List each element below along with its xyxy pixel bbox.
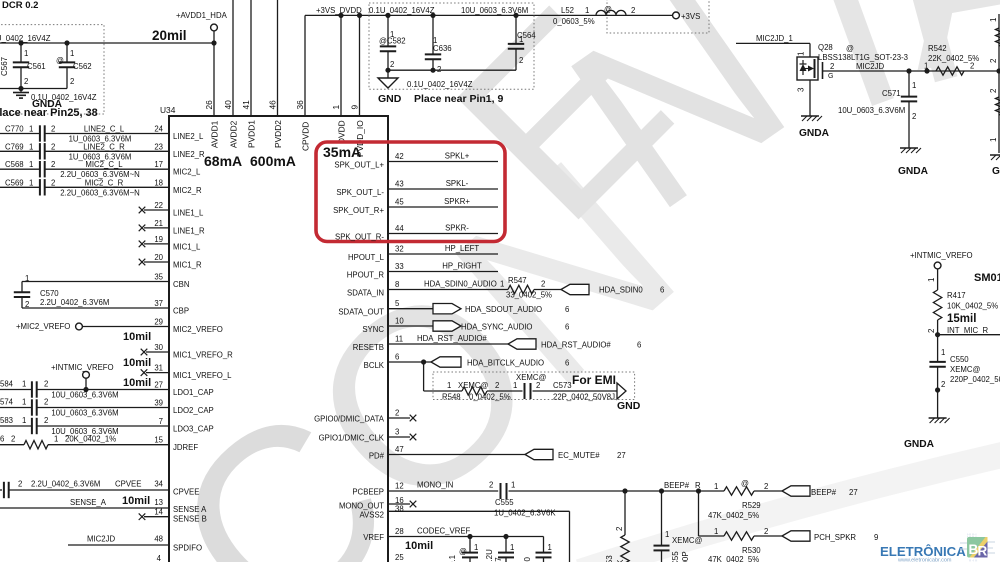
pin name DVDD xyxy=(337,120,347,144)
svg-text:LDO1_CAP: LDO1_CAP xyxy=(173,388,214,397)
node junctions CODEC_VREF xyxy=(467,534,508,539)
svg-text:24: 24 xyxy=(154,125,163,134)
svg-text:PD#: PD# xyxy=(369,452,385,461)
svg-text:27: 27 xyxy=(154,381,163,390)
svg-text:12: 12 xyxy=(395,482,404,491)
svg-text:2: 2 xyxy=(764,482,768,491)
wire +AVDD1_HDA to pin 26 xyxy=(211,31,216,116)
flag PCH_SPKR xyxy=(782,531,878,542)
svg-text:2: 2 xyxy=(989,88,998,93)
label BEEP#_R xyxy=(664,481,701,490)
capacitor C569 and pin 18 MIC2_R xyxy=(0,178,202,197)
value label 0.1U_0402_16V4Z xyxy=(31,93,97,102)
svg-text:1: 1 xyxy=(585,6,589,15)
power terminal +MIC2_VREFO and pin 29 MIC2_VREFO xyxy=(16,318,223,335)
svg-text:6: 6 xyxy=(395,353,399,362)
pin 13 SENSE A xyxy=(0,498,207,514)
svg-text:15: 15 xyxy=(154,436,163,445)
pin 12 PCBEEP wire MONO_IN xyxy=(352,481,498,497)
svg-text:35: 35 xyxy=(154,273,163,282)
svg-text:43: 43 xyxy=(395,180,404,189)
svg-text:R547: R547 xyxy=(508,276,527,285)
label 35mA xyxy=(323,144,361,160)
svg-text:R: R xyxy=(978,544,988,559)
label 68mA 600mA xyxy=(204,153,296,169)
svg-text:MIC2_C_L: MIC2_C_L xyxy=(85,160,123,169)
svg-text:CPVDD: CPVDD xyxy=(301,122,311,151)
svg-text:GNDA: GNDA xyxy=(898,166,929,177)
svg-text:@: @ xyxy=(56,56,64,65)
svg-text:220P_0402_50: 220P_0402_50 xyxy=(950,375,1000,384)
capacitor C562 xyxy=(56,43,92,89)
svg-text:CODEC_VREF: CODEC_VREF xyxy=(417,527,471,536)
svg-text:47K_0402_5%: 47K_0402_5% xyxy=(708,555,759,562)
svg-text:1: 1 xyxy=(989,17,998,22)
capacitor C583 and pin 7 LDO3_CAP xyxy=(0,416,214,436)
capacitor CPVEE and pin 34 CPVEE xyxy=(0,480,199,499)
svg-text:1: 1 xyxy=(29,178,33,187)
svg-text:9: 9 xyxy=(350,105,360,110)
svg-text:+MIC2_VREFO: +MIC2_VREFO xyxy=(16,322,70,331)
svg-text:PVDD2: PVDD2 xyxy=(273,120,283,148)
pin 42 SPK_OUT_L+ xyxy=(334,152,498,170)
svg-text:2: 2 xyxy=(395,409,399,418)
svg-text:2: 2 xyxy=(764,527,768,536)
dashed box For EMI xyxy=(433,372,635,400)
svg-text:2: 2 xyxy=(615,526,624,531)
svg-text:2: 2 xyxy=(44,380,48,389)
svg-text:46: 46 xyxy=(268,100,278,110)
pin 35 CBN xyxy=(22,273,189,290)
svg-text:AVDD1: AVDD1 xyxy=(210,120,220,148)
svg-text:GNDA: GNDA xyxy=(992,166,1000,177)
svg-text:6: 6 xyxy=(565,305,569,314)
wire +3VS_DVDD rail xyxy=(305,15,673,116)
arrow flag GND xyxy=(617,383,626,399)
svg-text:EC_MUTE#: EC_MUTE# xyxy=(558,451,600,460)
svg-text:2: 2 xyxy=(536,381,540,390)
svg-text:HPOUT_R: HPOUT_R xyxy=(347,271,385,280)
capacitor C769 and pin 23 LINE2_R xyxy=(0,142,205,161)
pin 37 CBP xyxy=(22,299,189,316)
svg-text:BEEP#: BEEP# xyxy=(811,488,837,497)
svg-text:2: 2 xyxy=(495,381,499,390)
flag BEEP# xyxy=(782,486,858,497)
ground GNDA under C550 xyxy=(929,418,950,423)
svg-text:11: 11 xyxy=(395,335,403,344)
svg-text:Place near Pin25, 38: Place near Pin25, 38 xyxy=(0,107,98,119)
dashed box C561/C562 xyxy=(0,25,104,114)
svg-text:LINE1_L: LINE1_L xyxy=(173,209,204,218)
svg-text:C57: C57 xyxy=(494,557,503,562)
svg-text:C568: C568 xyxy=(5,160,24,169)
svg-text:2: 2 xyxy=(541,280,545,289)
svg-text:MIC2JD_1: MIC2JD_1 xyxy=(756,34,793,43)
svg-text:584: 584 xyxy=(0,380,14,389)
power terminal +INTMIC_VREFO xyxy=(51,363,114,392)
svg-text:CBN: CBN xyxy=(173,280,189,289)
svg-text:20: 20 xyxy=(154,253,163,262)
label 20mil xyxy=(152,28,187,43)
value label 0.1U_0402_16V4Z (cut) xyxy=(0,34,51,43)
svg-text:6: 6 xyxy=(0,435,4,444)
svg-text:+AVDD1_HDA: +AVDD1_HDA xyxy=(176,11,228,20)
pin 48 SPDIFO wire MIC2JD xyxy=(68,535,202,553)
label GNDA (C571) xyxy=(898,166,929,177)
pin 5 SDATA_OUT xyxy=(338,299,569,317)
pin number 9 top xyxy=(350,105,360,110)
wire cap bottoms GND xyxy=(385,68,516,73)
svg-text:LINE2_L: LINE2_L xyxy=(173,132,204,141)
capacitor C573 xyxy=(513,373,617,402)
svg-text:2: 2 xyxy=(989,58,998,63)
value label 10U_0603_6.3V6M top xyxy=(461,6,528,15)
svg-text:1: 1 xyxy=(548,543,552,552)
svg-text:PCH_SPKR: PCH_SPKR xyxy=(814,533,856,542)
svg-text:25: 25 xyxy=(395,553,404,562)
svg-text:G: G xyxy=(828,73,833,80)
svg-text:100P: 100P xyxy=(681,551,690,562)
svg-text:GNDA: GNDA xyxy=(904,439,935,450)
svg-text:R548: R548 xyxy=(442,393,461,402)
capacitor C571 xyxy=(838,71,917,148)
svg-text:2: 2 xyxy=(489,481,493,490)
svg-text:574: 574 xyxy=(0,398,14,407)
pin 28 VREF wire CODEC_VREF xyxy=(363,527,543,543)
svg-text:35mA: 35mA xyxy=(323,144,361,160)
svg-text:SENSE A: SENSE A xyxy=(173,505,207,514)
capacitor C568 and pin 17 MIC2_L xyxy=(0,160,201,179)
svg-text:1: 1 xyxy=(29,125,33,134)
svg-text:C573: C573 xyxy=(553,381,572,390)
svg-text:2: 2 xyxy=(437,65,441,74)
label GNDA (Q28) xyxy=(799,128,830,139)
wire down to R530 xyxy=(698,491,700,536)
svg-text:2: 2 xyxy=(970,62,974,71)
svg-text:10U_0603_6.3V6M: 10U_0603_6.3V6M xyxy=(838,106,905,115)
svg-text:10mil: 10mil xyxy=(405,540,433,552)
svg-text:HDA_BITCLK_AUDIO: HDA_BITCLK_AUDIO xyxy=(467,359,544,368)
right edge connector column xyxy=(989,14,1000,153)
svg-text:C769: C769 xyxy=(5,142,24,151)
svg-text:10mil: 10mil xyxy=(123,377,151,389)
svg-text:BCLK: BCLK xyxy=(364,361,385,370)
svg-text:2: 2 xyxy=(941,380,945,389)
svg-text:1: 1 xyxy=(29,142,33,151)
svg-text:1: 1 xyxy=(70,49,74,58)
svg-text:@: @ xyxy=(741,479,749,488)
svg-text:21: 21 xyxy=(154,219,163,228)
svg-text:INT_MIC_R: INT_MIC_R xyxy=(947,326,989,335)
pin 45 SPK_OUT_R+ xyxy=(333,197,498,215)
pin 32 HPOUT_L xyxy=(348,244,498,262)
capacitor stub 2 below VREF xyxy=(485,537,514,562)
svg-text:0.1U_0402_16V4Z: 0.1U_0402_16V4Z xyxy=(407,80,473,89)
svg-text:1: 1 xyxy=(924,62,928,71)
decor swoosh bottom right xyxy=(580,452,1000,562)
node junction C562 top xyxy=(64,40,69,45)
svg-text:48: 48 xyxy=(154,535,163,544)
svg-text:DCR 0.2: DCR 0.2 xyxy=(2,0,38,11)
svg-text:SPKR+: SPKR+ xyxy=(444,197,470,206)
op-amp codec U34 body xyxy=(169,116,388,562)
svg-text:27: 27 xyxy=(617,451,626,460)
svg-text:MIC2_R: MIC2_R xyxy=(173,186,202,195)
wire R417 to node xyxy=(927,320,940,337)
svg-text:HDA_SDIN0_AUDIO: HDA_SDIN0_AUDIO xyxy=(424,280,497,289)
svg-text:SPKL+: SPKL+ xyxy=(445,152,470,161)
resistor R529 row xyxy=(699,479,783,520)
value label 0.1U_0402_16V4Z top xyxy=(369,6,435,15)
svg-text:33_0402_5%: 33_0402_5% xyxy=(506,291,552,300)
svg-text:6: 6 xyxy=(660,286,664,295)
svg-text:1: 1 xyxy=(54,435,58,444)
label GND Place near Pin1, 9 xyxy=(378,93,503,105)
pin 14 SENSE B no-connect xyxy=(139,508,207,524)
svg-text:GNDA: GNDA xyxy=(799,128,830,139)
svg-text:10mil: 10mil xyxy=(123,331,151,343)
label 10mil (pin28) xyxy=(405,540,433,552)
capacitor stub 3 below VREF xyxy=(523,537,552,562)
svg-text:1: 1 xyxy=(24,49,28,58)
svg-text:MONO_IN: MONO_IN xyxy=(417,481,453,490)
svg-text:LINE1_R: LINE1_R xyxy=(173,226,205,235)
label GNDA (C550) xyxy=(904,439,935,450)
svg-text:14: 14 xyxy=(154,508,163,517)
watermark letter N xyxy=(523,0,831,262)
svg-text:CBP: CBP xyxy=(173,307,189,316)
pin 44 SPK_OUT_R- xyxy=(335,224,498,242)
svg-text:18: 18 xyxy=(154,178,163,187)
svg-text:2: 2 xyxy=(830,62,834,71)
svg-text:HDA_RST_AUDIO#: HDA_RST_AUDIO# xyxy=(417,334,487,343)
svg-text:1: 1 xyxy=(797,51,806,56)
wire MIC2JD_1 xyxy=(736,34,810,57)
svg-text:10mil: 10mil xyxy=(123,357,151,369)
svg-text:SENSE_A: SENSE_A xyxy=(70,498,107,507)
svg-text:C55: C55 xyxy=(671,551,680,562)
svg-text:0_0603_5%: 0_0603_5% xyxy=(553,17,595,26)
node junction C561 bottom xyxy=(18,86,23,91)
svg-text:47: 47 xyxy=(395,445,404,454)
svg-text:SENSE B: SENSE B xyxy=(173,515,207,524)
capacitor C564 xyxy=(508,13,537,70)
pin number 36 top xyxy=(295,100,305,110)
gate bar Q28 xyxy=(822,62,824,79)
pin name AVDD1 xyxy=(210,120,220,148)
svg-text:SYNC: SYNC xyxy=(362,325,384,334)
pin number 40 top xyxy=(223,100,233,110)
svg-text:C571: C571 xyxy=(882,89,901,98)
power terminal +AVDD1_HDA xyxy=(176,11,228,31)
watermark CONFIDENTIAL diagonal part xyxy=(122,108,724,562)
pin name PVDD2 xyxy=(273,120,283,148)
wire Q28 source to ground xyxy=(809,80,811,116)
svg-text:2: 2 xyxy=(24,77,28,86)
node junction C561 top xyxy=(18,40,23,45)
pin 10 SYNC xyxy=(362,317,569,335)
svg-text:VREF: VREF xyxy=(363,533,384,542)
pin 33 HPOUT_R xyxy=(347,262,498,280)
capacitor C55x vertical xyxy=(654,491,703,562)
pin 47 PD# xyxy=(369,445,626,461)
svg-text:SPK_OUT_R+: SPK_OUT_R+ xyxy=(333,206,384,215)
svg-text:1: 1 xyxy=(29,160,33,169)
svg-text:2: 2 xyxy=(631,6,635,15)
svg-text:LDO2_CAP: LDO2_CAP xyxy=(173,406,214,415)
resistor R417 xyxy=(933,290,998,320)
svg-text:1: 1 xyxy=(989,137,998,142)
pin 31 MIC1_VREFO_L no-connect xyxy=(141,364,232,380)
svg-text:6: 6 xyxy=(565,359,569,368)
svg-text:Q28: Q28 xyxy=(818,43,833,52)
svg-text:2: 2 xyxy=(51,142,55,151)
svg-text:MIC1_VREFO_R: MIC1_VREFO_R xyxy=(173,351,233,360)
svg-text:HDA_SYNC_AUDIO: HDA_SYNC_AUDIO xyxy=(461,323,533,332)
pin 2 GPIO0/DMIC_DATA no-connect xyxy=(314,409,416,424)
svg-text:1: 1 xyxy=(513,381,517,390)
svg-text:22: 22 xyxy=(154,201,163,210)
pin 38 AVSS2 xyxy=(359,505,569,562)
svg-text:10U_0603_6.3V6M: 10U_0603_6.3V6M xyxy=(51,409,118,418)
label Place near Pin25, 38 xyxy=(0,107,98,119)
svg-text:JDREF: JDREF xyxy=(173,443,198,452)
svg-text:HDA_RST_AUDIO#: HDA_RST_AUDIO# xyxy=(541,341,611,350)
svg-text:1: 1 xyxy=(22,398,26,407)
svg-text:HP_RIGHT: HP_RIGHT xyxy=(442,262,482,271)
wire R548 to C573 xyxy=(487,390,523,392)
label 10mil (pin31) xyxy=(123,377,151,389)
svg-text:2: 2 xyxy=(18,480,22,489)
svg-text:2: 2 xyxy=(51,125,55,134)
svg-text:R417: R417 xyxy=(947,291,966,300)
svg-text:1: 1 xyxy=(22,380,26,389)
svg-text:@: @ xyxy=(846,44,854,53)
pin name PVDD1 xyxy=(247,120,257,148)
svg-text:1: 1 xyxy=(447,381,451,390)
svg-text:MIC2_C_R: MIC2_C_R xyxy=(85,178,124,187)
svg-text:C770: C770 xyxy=(5,125,24,134)
svg-text:MIC2_VREFO: MIC2_VREFO xyxy=(173,325,223,334)
svg-text:20K_0402_1%: 20K_0402_1% xyxy=(65,435,116,444)
capacitor C584 and pin 27 LDO1_CAP xyxy=(0,380,214,400)
label Q28 xyxy=(818,43,908,62)
svg-text:MIC2_L: MIC2_L xyxy=(173,168,201,177)
watermark letter T xyxy=(734,0,973,178)
svg-text:C562: C562 xyxy=(73,62,92,71)
svg-text:19: 19 xyxy=(154,235,163,244)
capacitor stub 1 below VREF xyxy=(448,537,478,562)
svg-text:36: 36 xyxy=(295,100,305,110)
svg-text:MIC2JD: MIC2JD xyxy=(856,62,885,71)
label 15mil xyxy=(947,313,976,325)
svg-text:0.1: 0.1 xyxy=(448,554,457,562)
wire pin 1 stub xyxy=(338,13,343,116)
svg-text:SPKR-: SPKR- xyxy=(445,224,469,233)
svg-text:C569: C569 xyxy=(5,178,24,187)
svg-text:2: 2 xyxy=(11,435,15,444)
svg-text:9: 9 xyxy=(874,533,878,542)
pin 11 RESETB xyxy=(353,334,642,352)
label U34 xyxy=(160,105,176,115)
svg-text:45: 45 xyxy=(395,198,404,207)
svg-text:34: 34 xyxy=(154,480,163,489)
svg-text:GND: GND xyxy=(617,400,641,412)
svg-text:XEMC@: XEMC@ xyxy=(950,365,981,374)
pin 20 MIC1_R no-connect xyxy=(139,253,202,270)
svg-text:13: 13 xyxy=(154,498,163,507)
dashed box L52 xyxy=(607,0,709,33)
svg-text:3: 3 xyxy=(395,428,399,437)
svg-text:GPIO1/DMIC_CLK: GPIO1/DMIC_CLK xyxy=(319,434,385,443)
svg-text:4: 4 xyxy=(157,554,162,562)
svg-text:For EMI: For EMI xyxy=(572,373,616,387)
svg-text:68mA: 68mA xyxy=(204,153,242,169)
ground GNDA under C571 xyxy=(900,148,921,153)
svg-text:+INTMIC_VREFO: +INTMIC_VREFO xyxy=(51,363,114,372)
svg-text:5: 5 xyxy=(395,299,400,308)
node junctions on MONO_IN net xyxy=(622,488,701,493)
svg-text:26: 26 xyxy=(204,100,214,110)
pin name AVDD2 xyxy=(229,120,239,148)
svg-text:HP_LEFT: HP_LEFT xyxy=(445,244,479,253)
svg-text:HDA_SDIN0: HDA_SDIN0 xyxy=(599,286,643,295)
wire cap bottoms xyxy=(0,88,67,90)
svg-text:3: 3 xyxy=(797,87,806,92)
svg-text:MIC1_L: MIC1_L xyxy=(173,242,201,251)
capacitor C561 xyxy=(13,43,46,89)
label GNDA (right edge) xyxy=(992,166,1000,177)
capacitor C555 xyxy=(494,481,699,518)
svg-text:C555: C555 xyxy=(495,498,514,507)
svg-text:PCBEEP: PCBEEP xyxy=(352,488,384,497)
svg-text:2: 2 xyxy=(519,56,523,65)
svg-text:R53: R53 xyxy=(605,555,614,562)
svg-text:SDATA_IN: SDATA_IN xyxy=(347,289,384,298)
svg-text:10U_0603_6.3V6M: 10U_0603_6.3V6M xyxy=(461,6,528,15)
svg-text:AVDD2: AVDD2 xyxy=(229,120,239,148)
svg-text:1: 1 xyxy=(927,277,936,282)
pin number 1 top xyxy=(331,105,341,110)
wire INT_MIC_R xyxy=(938,326,1000,335)
svg-text:2: 2 xyxy=(51,160,55,169)
ground GND triangle xyxy=(378,70,398,88)
svg-text:1: 1 xyxy=(941,348,945,357)
svg-text:R542: R542 xyxy=(928,44,947,53)
svg-text:BEEP#: BEEP# xyxy=(664,481,690,490)
svg-text:LINE2_C_L: LINE2_C_L xyxy=(84,125,125,134)
svg-text:@C582: @C582 xyxy=(379,37,406,46)
svg-text:20mil: 20mil xyxy=(152,28,187,43)
label For EMI xyxy=(572,373,616,387)
svg-text:32: 32 xyxy=(395,245,404,254)
pin number 26 top xyxy=(204,100,214,110)
svg-text:@: @ xyxy=(604,5,612,14)
svg-text:15mil: 15mil xyxy=(947,313,976,325)
svg-text:LINE2_C_R: LINE2_C_R xyxy=(83,142,125,151)
inductor L52 xyxy=(553,5,635,26)
svg-text:2.2U_0402_6.3V6M: 2.2U_0402_6.3V6M xyxy=(40,298,109,307)
resistor R530 row xyxy=(699,527,783,562)
svg-text:XEMC@: XEMC@ xyxy=(516,373,547,382)
svg-text:www.eletronicabr.com: www.eletronicabr.com xyxy=(897,558,952,562)
svg-text:SDATA_OUT: SDATA_OUT xyxy=(338,308,384,317)
svg-text:+3VS: +3VS xyxy=(681,12,700,21)
pin 30 MIC1_VREFO_R no-connect xyxy=(141,343,233,360)
label +3VS_DVDD xyxy=(316,6,362,15)
svg-text:LINE2_R: LINE2_R xyxy=(173,150,205,159)
pin 25 number xyxy=(395,553,404,562)
